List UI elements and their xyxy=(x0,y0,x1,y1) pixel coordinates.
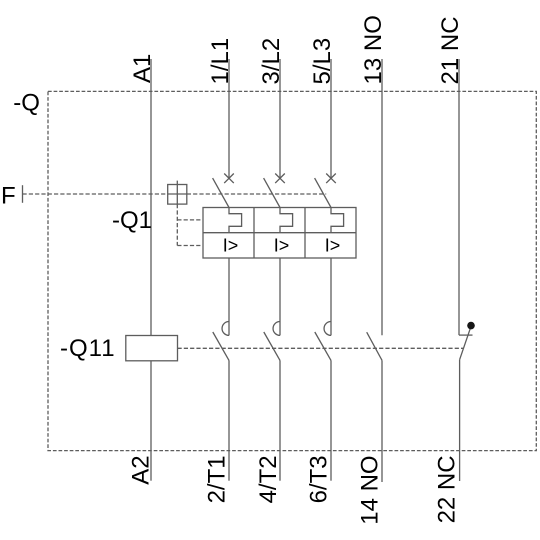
svg-text:F: F xyxy=(1,183,16,210)
wire 14 NO xyxy=(381,360,383,482)
svg-text:A1: A1 xyxy=(129,54,156,83)
contactor arc pole 2 xyxy=(273,322,280,336)
wire A2 xyxy=(150,361,152,481)
svg-text:3/L2: 3/L2 xyxy=(258,38,285,85)
breaker box row divider xyxy=(203,232,356,234)
wire 6/T3 xyxy=(330,360,332,480)
svg-text:6/T3: 6/T3 xyxy=(305,455,332,503)
wire 4/T2 xyxy=(279,360,281,480)
F terminal tick xyxy=(22,185,24,203)
svg-text:2/T1: 2/T1 xyxy=(203,455,230,503)
blade pole 1 lower xyxy=(213,332,229,360)
svg-text:-Q11: -Q11 xyxy=(60,335,116,362)
coil -Q11 xyxy=(126,336,178,361)
wire 13 NO xyxy=(381,59,383,335)
blade 13-14 NO xyxy=(367,332,382,360)
trip linkage dashed F line left xyxy=(23,193,168,195)
blade pole 2 lower xyxy=(264,332,280,360)
wire 2/T1 xyxy=(228,360,230,480)
blade pole 3 lower xyxy=(315,332,331,360)
blade pole 3 xyxy=(315,178,331,207)
wire 22 NC xyxy=(459,360,461,481)
svg-text:-Q: -Q xyxy=(13,90,40,117)
dashed enclosure border -Q xyxy=(48,91,536,450)
contactor arc pole 3 xyxy=(324,322,331,336)
wire 21 NC xyxy=(458,59,460,335)
blade pole 1 xyxy=(213,178,229,207)
breaker box pole divider 1 xyxy=(253,208,255,259)
svg-text:I>: I> xyxy=(325,236,341,256)
trip square symbol xyxy=(168,185,187,205)
svg-text:A2: A2 xyxy=(128,455,155,484)
latch hook pole 3 xyxy=(331,208,344,233)
breaker function X pole 3 xyxy=(326,174,336,184)
trip square solid cross vertical xyxy=(176,181,178,205)
svg-text:5/L3: 5/L3 xyxy=(309,38,336,85)
wire pole 1 lower xyxy=(228,258,230,335)
wire pole 2 lower xyxy=(279,258,281,335)
mirror contact dot 21 NC xyxy=(467,322,475,330)
trip linkage dashed vertical xyxy=(176,204,178,245)
contactor arc pole 1 xyxy=(222,322,229,336)
svg-text:I>: I> xyxy=(274,236,290,256)
fixed contact stub 21 NC xyxy=(459,334,473,336)
svg-text:14 NO: 14 NO xyxy=(356,455,383,524)
latch hook pole 1 xyxy=(229,208,242,233)
wire 5/L3 xyxy=(330,59,332,178)
svg-text:-Q1: -Q1 xyxy=(112,207,152,234)
actuation dashed line xyxy=(178,347,464,349)
blade pole 2 xyxy=(264,178,280,207)
trip linkage dashed stub upper xyxy=(177,219,203,221)
svg-text:13 NO: 13 NO xyxy=(360,15,387,84)
blade 21-22 NC xyxy=(460,329,471,360)
trip linkage dashed F line right xyxy=(187,193,326,195)
svg-text:I>: I> xyxy=(223,236,239,256)
trip linkage dashed stub lower xyxy=(177,245,203,247)
svg-text:1/L1: 1/L1 xyxy=(207,38,234,85)
breaker box pole divider 2 xyxy=(304,208,306,259)
wire 3/L2 xyxy=(279,59,281,178)
wire pole 3 lower xyxy=(330,258,332,335)
breaker function X pole 2 xyxy=(275,174,285,184)
latch hook pole 2 xyxy=(280,208,293,233)
svg-text:22 NC: 22 NC xyxy=(433,455,460,523)
breaker function X pole 1 xyxy=(224,174,234,184)
svg-text:4/T2: 4/T2 xyxy=(255,455,282,503)
wire 1/L1 xyxy=(228,59,230,178)
wire A1 xyxy=(150,59,152,336)
breaker box -Q1 outline xyxy=(203,208,356,259)
trip square solid cross horizontal xyxy=(168,193,187,195)
svg-text:21 NC: 21 NC xyxy=(437,16,464,84)
